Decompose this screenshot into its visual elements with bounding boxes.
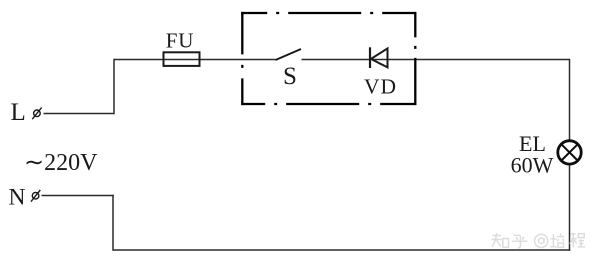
dash-dot enclosure box: right edge (414, 12, 416, 105)
diode VD triangle (371, 48, 388, 67)
wire top run from corner to switch left contact (114, 59, 276, 61)
terminal L (circle with slash) (32, 108, 41, 120)
terminal N (circle with slash) (31, 190, 40, 202)
svg-text:N: N (9, 185, 26, 211)
wire left vertical N down to bottom run (112, 195, 114, 251)
switch S blade (276, 49, 302, 60)
svg-text:60W: 60W (511, 153, 554, 178)
diode VD cathode bar (369, 47, 371, 68)
svg-text:∼220V: ∼220V (24, 150, 98, 176)
svg-text:S: S (283, 63, 297, 90)
wire right vertical from lamp to bottom run (569, 166, 571, 251)
wire top run from switch right contact to right corner (302, 59, 570, 61)
培 (550, 233, 564, 247)
watermark 知乎 @培程 (492, 233, 586, 248)
fuse FU (164, 52, 200, 66)
知 (492, 233, 509, 247)
lamp EL (circle with X) (558, 141, 581, 164)
wire bottom run (113, 249, 570, 251)
wire right vertical down to lamp (569, 59, 571, 140)
dash-dot enclosure box: top edge (241, 12, 415, 14)
乎 (512, 235, 528, 248)
dash-dot enclosure box: bottom edge (241, 103, 415, 105)
svg-text:L: L (11, 99, 26, 126)
程 (570, 233, 585, 248)
svg-text:FU: FU (166, 29, 194, 53)
wire left vertical L up to top run (113, 59, 115, 115)
wire N terminal to left vertical (42, 195, 114, 197)
dash-dot enclosure box: left edge (241, 12, 243, 105)
@ (535, 234, 548, 247)
wire L terminal to left vertical (44, 113, 115, 115)
svg-text:VD: VD (364, 74, 397, 98)
